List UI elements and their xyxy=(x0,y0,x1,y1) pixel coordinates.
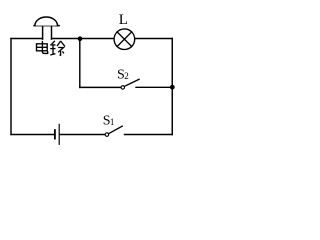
char 电 xyxy=(42,41,47,54)
wire battery to S1 xyxy=(60,134,105,136)
char 铃 xyxy=(52,41,55,44)
wire S1 to bottom-right corner xyxy=(125,134,173,136)
wire junction down to S2 branch xyxy=(79,39,81,88)
node junction dot top xyxy=(78,36,83,41)
bell dome xyxy=(35,17,58,26)
wire S2 branch left xyxy=(80,86,121,88)
wire top-left horizontal xyxy=(11,38,43,40)
switch S2 xyxy=(121,79,139,89)
wire S2 branch right xyxy=(136,86,172,88)
bell base line xyxy=(34,25,59,27)
battery cell xyxy=(55,124,59,144)
wire right vertical xyxy=(171,39,173,135)
wire lamp to top-right corner xyxy=(135,38,173,40)
bell right leg xyxy=(51,26,53,40)
electric bell symbol xyxy=(34,17,59,39)
battery long plate xyxy=(58,124,60,144)
wire bottom left to battery xyxy=(11,134,54,136)
lamp L xyxy=(114,29,135,50)
wire left vertical xyxy=(10,39,12,135)
bell left leg xyxy=(42,26,44,40)
wire bell to junction and lamp xyxy=(52,38,115,40)
svg-text:S1: S1 xyxy=(103,114,115,129)
node junction dot right xyxy=(170,85,175,90)
switch S1 xyxy=(105,126,122,136)
svg-text:S2: S2 xyxy=(117,67,129,82)
label 电铃 (drawn strokes) xyxy=(37,41,66,55)
svg-text:L: L xyxy=(119,12,128,28)
battery short plate xyxy=(54,130,56,139)
